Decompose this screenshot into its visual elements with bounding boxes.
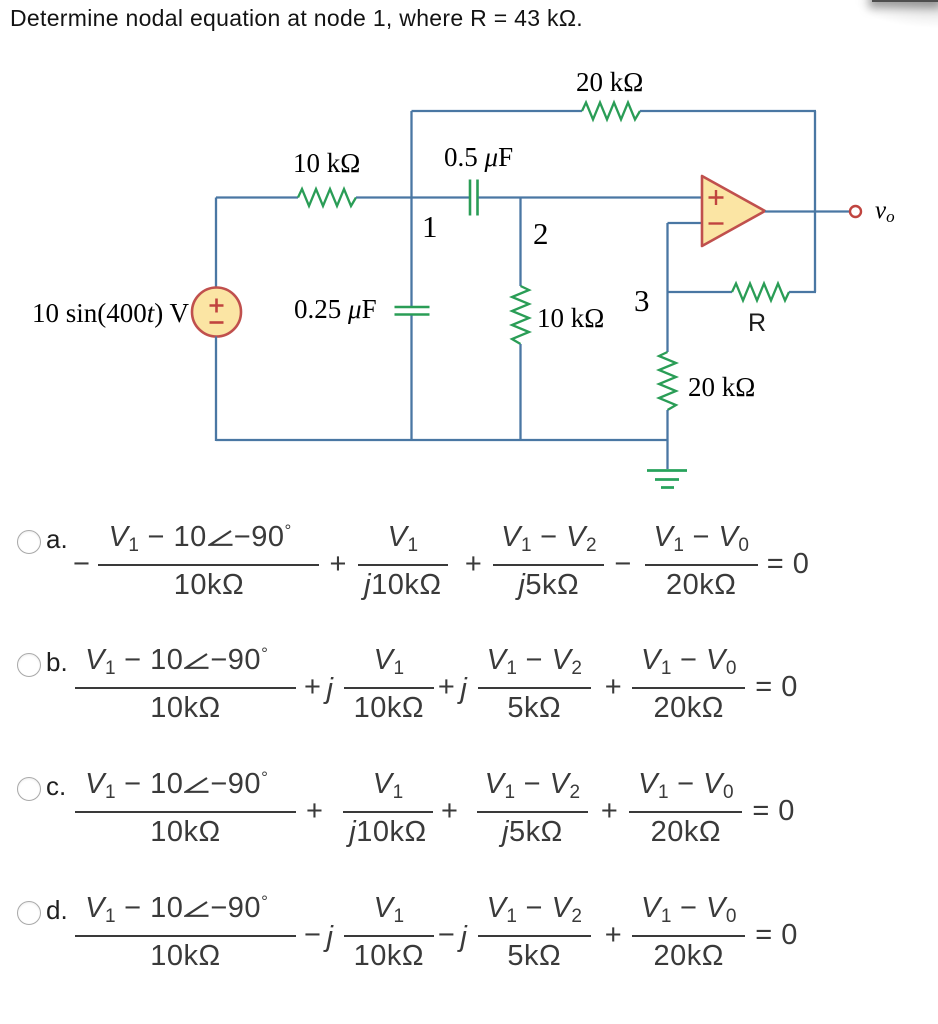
resistor 20k top zigzag — [582, 103, 640, 120]
resistor 10k horizontal zigzag — [298, 189, 356, 206]
wire: node 1 vertical upper — [410, 111, 412, 307]
wire: main horizontal cap to op-amp — [479, 196, 703, 198]
resistor R zigzag — [732, 284, 789, 301]
svg-text:0.5 μF: 0.5 μF — [444, 142, 513, 172]
svg-text:10 kΩ: 10 kΩ — [293, 148, 360, 178]
circuit schematic — [0, 0, 938, 520]
voltage source plus mark — [210, 299, 224, 313]
wire: node 1 vertical lower — [410, 316, 412, 441]
wire: R feedback horizontal left — [668, 291, 733, 293]
wire: ground stub — [666, 440, 668, 469]
svg-text:3: 3 — [634, 283, 650, 318]
op-amp minus input mark — [709, 222, 724, 224]
option b — [17, 653, 41, 677]
wire: main horizontal from source top to 10k resistor — [216, 196, 298, 198]
voltage source circle — [192, 288, 241, 337]
wire: node 3 vertical lower — [666, 410, 668, 440]
ground symbol — [647, 471, 687, 488]
option c — [17, 777, 41, 801]
voltage source minus mark — [210, 321, 224, 324]
wire: node 3 vertical upper — [666, 223, 668, 352]
svg-text:R: R — [748, 309, 766, 337]
wire: left vertical source branch lower — [215, 337, 217, 442]
capacitor 0.25uF plates — [395, 306, 430, 309]
svg-text:20 kΩ: 20 kΩ — [576, 67, 643, 97]
wire: right vertical feedback — [814, 111, 816, 292]
svg-text:10 kΩ: 10 kΩ — [537, 303, 604, 333]
option d — [17, 901, 41, 925]
svg-text:20 kΩ: 20 kΩ — [688, 372, 755, 402]
option a — [17, 530, 41, 554]
svg-text:0.25 μF: 0.25 μF — [294, 294, 377, 324]
wire: minus input horizontal — [668, 222, 703, 224]
wire: main horizontal between 10k and cap — [356, 196, 469, 198]
resistor 20k vertical zigzag — [659, 352, 676, 410]
op-amp U1 triangle — [702, 176, 765, 246]
op-amp plus input mark — [709, 190, 724, 205]
svg-text:vo: vo — [875, 197, 895, 226]
wire: top feedback horizontal right — [640, 110, 816, 112]
svg-text:2: 2 — [533, 216, 549, 251]
wire: left vertical source branch upper — [215, 198, 217, 288]
top-right dark bar fragment — [818, 0, 938, 46]
output terminal circle — [850, 206, 861, 217]
wire: node 2 vertical lower — [519, 344, 521, 440]
capacitor 0.5uF plates — [469, 180, 472, 216]
wire: output — [765, 210, 850, 212]
resistor 10k vertical zigzag — [512, 286, 529, 344]
title — [10, 5, 583, 32]
svg-text:10 sin(400t) V: 10 sin(400t) V — [32, 298, 190, 328]
svg-text:1: 1 — [422, 209, 438, 244]
wire: bottom horizontal — [216, 439, 668, 441]
wire: node 2 vertical upper — [519, 198, 521, 287]
wire: R feedback horizontal right — [789, 291, 816, 293]
wire: top feedback horizontal left — [412, 110, 583, 112]
